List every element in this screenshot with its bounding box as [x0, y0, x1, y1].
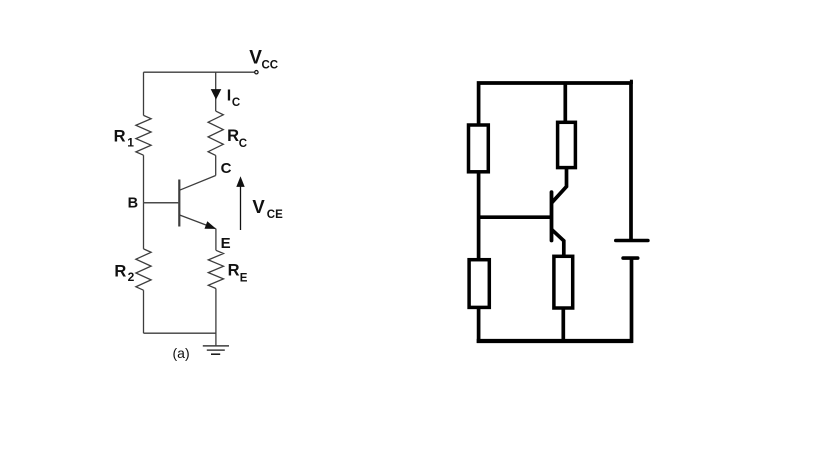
svg-text:CC: CC [262, 60, 279, 72]
svg-text:C: C [232, 97, 240, 109]
resistor RE [208, 250, 223, 288]
wire: collector diagonal into transistor bar [180, 176, 216, 191]
svg-text:R: R [227, 127, 239, 145]
svg-text:E: E [240, 272, 248, 284]
svg-text:I: I [227, 88, 231, 105]
wire: emitter lead [552, 229, 564, 256]
svg-text:(a): (a) [173, 345, 190, 361]
wire: right rail bottom [630, 258, 634, 343]
wire: base lead [479, 215, 552, 219]
svg-text:R: R [228, 261, 240, 279]
resistor box upper-left [469, 125, 489, 172]
label RE [228, 261, 248, 284]
resistor box lower-middle [554, 256, 573, 308]
wire: stub at top-right corner [630, 80, 633, 84]
svg-text:V: V [252, 196, 265, 217]
wire: left rail bottom [477, 307, 481, 343]
svg-text:2: 2 [128, 270, 135, 284]
wire: left rail middle (R1 to R2 through node B) [143, 155, 145, 249]
label R1 [114, 127, 135, 149]
wire: IC branch from VCC rail to RC [215, 72, 217, 111]
svg-text:B: B [128, 195, 138, 211]
resistor box lower-left [469, 260, 489, 308]
wire: left rail bottom (R2 to bottom rail) [143, 290, 145, 333]
label VCC [249, 48, 278, 72]
wire: emitter vertical down to RE [215, 229, 217, 251]
svg-text:E: E [221, 235, 231, 252]
emitter arrowhead [205, 221, 217, 229]
resistor box upper-middle [558, 122, 576, 167]
resistor R1 [136, 115, 151, 155]
ground [203, 346, 229, 354]
wire: middle branch top [563, 83, 567, 122]
transistor Q1 base bar [178, 180, 180, 227]
current arrow IC [211, 89, 222, 100]
label IC [227, 88, 240, 109]
label R2 [114, 262, 134, 284]
arrow VCE [240, 186, 242, 231]
wire: left rail top (to R1) [143, 72, 145, 115]
wire: base from node B to bar [144, 202, 180, 204]
resistor RC [208, 111, 223, 155]
svg-text:R: R [114, 262, 126, 280]
svg-text:1: 1 [127, 135, 134, 149]
wire: bottom rail [477, 339, 633, 343]
transistor bar (right) [550, 192, 554, 240]
wire: lower middle branch [561, 308, 565, 341]
svg-text:C: C [239, 138, 247, 150]
wire: collector lead [552, 168, 567, 203]
battery V bottom plate [623, 256, 638, 260]
terminal VCC circle [255, 71, 258, 74]
svg-text:C: C [221, 160, 232, 177]
resistor R2 [136, 249, 151, 290]
label RC [227, 127, 247, 150]
battery V top plate [616, 239, 648, 243]
wire: bottom rail [144, 332, 216, 334]
label VCE [252, 196, 283, 221]
wire: left rail between resistors [477, 172, 481, 260]
wire: top rail + left rail top + right rail top [479, 83, 631, 239]
svg-text:CE: CE [267, 209, 283, 221]
wire: emitter diagonal [179, 215, 215, 229]
wire: RC to collector corner [215, 155, 217, 175]
svg-text:R: R [114, 127, 126, 145]
wire: VCC top rail [144, 71, 255, 73]
svg-text:V: V [249, 48, 262, 69]
wire: RE to ground [215, 289, 217, 346]
